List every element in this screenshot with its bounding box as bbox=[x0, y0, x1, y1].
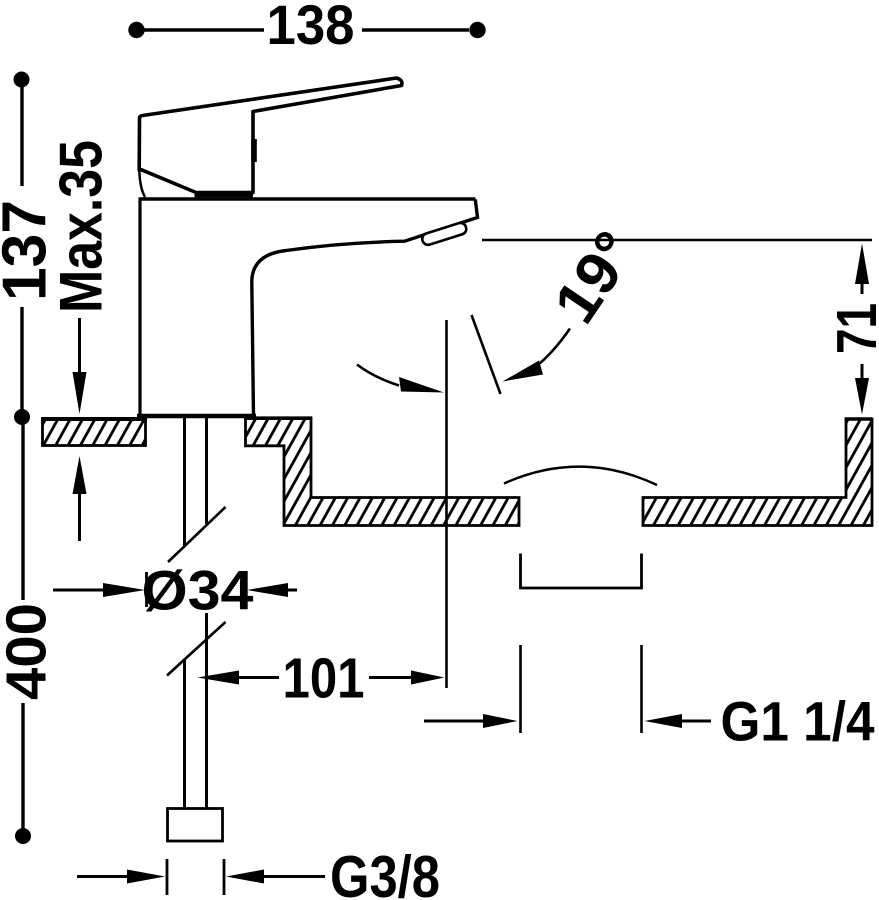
basin break arc bbox=[504, 467, 657, 485]
supply pipe lower left line bbox=[183, 660, 186, 808]
dim G3/8 left extension tick bbox=[166, 859, 169, 895]
dim O34 left arrowhead bbox=[103, 583, 145, 597]
supply pipe lower right line bbox=[205, 613, 208, 808]
svg-text:400: 400 bbox=[0, 603, 58, 700]
dim O34 right arrow tail bbox=[286, 589, 297, 592]
dim O34 left extension tick bbox=[145, 572, 148, 607]
dim G1 1/4 right extension line bbox=[640, 645, 643, 733]
dim 137 top dot bbox=[14, 72, 30, 88]
dim 101 right arrow tail bbox=[369, 676, 413, 679]
svg-text:Max.35: Max.35 bbox=[48, 140, 115, 313]
supply pipe upper left line bbox=[183, 418, 186, 547]
dim 138 dimension line right segment bbox=[362, 28, 469, 31]
angle arc right arrowhead bbox=[503, 361, 544, 382]
dim G3/8 left arrow tail bbox=[77, 875, 131, 878]
faucet body left edge bbox=[138, 199, 141, 415]
dim G1 1/4 left arrowhead bbox=[483, 714, 518, 728]
Max.35 arrow down head bbox=[73, 372, 87, 414]
dim O34 left arrow tail bbox=[53, 589, 106, 592]
shared dot at worktop level bbox=[14, 409, 30, 425]
dim 71 up arrow shaft bbox=[861, 280, 864, 294]
faucet body top surface line bbox=[139, 197, 476, 200]
dim G1 1/4 right arrow tail bbox=[680, 720, 711, 723]
dim 138 right dot bbox=[469, 22, 485, 38]
dim 101 left arrow tail bbox=[237, 676, 279, 679]
handle wedge gap line bbox=[139, 170, 145, 197]
angle arc left arrowhead bbox=[399, 377, 444, 393]
angle arc right bbox=[537, 329, 571, 367]
dim 138 left dot bbox=[128, 22, 144, 38]
dim G3/8 right arrow tail bbox=[262, 875, 325, 878]
faucet body bottom edge bbox=[137, 414, 256, 419]
dim 101 left arrowhead bbox=[198, 671, 240, 685]
Max.35 arrow down shaft bbox=[78, 318, 81, 378]
drain recess U outline bbox=[521, 554, 642, 589]
faucet body right edge and spout underside and end face bbox=[252, 200, 478, 417]
dim 137 dimension line upper segment bbox=[20, 84, 23, 186]
dim 400 dimension line lower segment bbox=[21, 703, 24, 832]
angle arc left bbox=[357, 365, 399, 386]
svg-text:101: 101 bbox=[283, 647, 365, 711]
dim 400 dimension line upper segment bbox=[21, 421, 24, 600]
svg-text:G1 1/4: G1 1/4 bbox=[721, 690, 875, 753]
worktop thickness arrow up head bbox=[73, 456, 87, 494]
spout height reference line bbox=[482, 239, 872, 242]
dim 101 right arrowhead bbox=[411, 671, 445, 685]
worktop right-side section with upstand bbox=[643, 419, 872, 526]
pipe break lower diagonal bbox=[167, 622, 226, 676]
dim 71 down arrowhead bbox=[855, 378, 869, 415]
aerator bbox=[421, 222, 468, 247]
worktop right upstand thick top edge bbox=[845, 417, 872, 421]
worktop right step section bbox=[246, 419, 520, 526]
dim 137 dimension line lower segment bbox=[20, 307, 23, 413]
dim G3/8 right arrowhead bbox=[226, 870, 264, 884]
dim 71 down arrow shaft bbox=[861, 364, 864, 380]
rotated spout face line bbox=[472, 315, 501, 394]
spout axis vertical line bbox=[445, 320, 448, 688]
dim G1 1/4 left arrow tail bbox=[424, 720, 487, 723]
supply pipe upper right line bbox=[205, 418, 208, 524]
dim O34 right arrowhead bbox=[247, 583, 288, 597]
svg-text:G3/8: G3/8 bbox=[330, 844, 440, 900]
worktop thickness arrow up shaft bbox=[78, 490, 81, 541]
handle front edge tick bbox=[251, 139, 257, 162]
svg-text:138: 138 bbox=[267, 0, 355, 56]
dim G3/8 right extension tick bbox=[223, 859, 226, 895]
worktop left hatched band bbox=[43, 419, 146, 446]
svg-text:Ø34: Ø34 bbox=[142, 559, 254, 622]
pipe break upper diagonal bbox=[168, 507, 226, 562]
dim G1 1/4 right arrowhead bbox=[645, 714, 683, 728]
dim G1 1/4 left extension line bbox=[519, 645, 522, 733]
dim 71 up arrowhead bbox=[855, 244, 869, 285]
dim G3/8 left arrowhead bbox=[127, 870, 165, 884]
worktop right step thick top edge bbox=[244, 416, 312, 420]
dim 138 dimension line left segment bbox=[143, 28, 264, 31]
handle shadow band bbox=[195, 191, 254, 197]
hose end connector bbox=[168, 809, 223, 842]
dim 400 bottom dot bbox=[15, 828, 31, 844]
svg-text:71: 71 bbox=[825, 303, 879, 354]
faucet handle lever outline bbox=[139, 78, 402, 193]
dim O34 right extension tick bbox=[244, 572, 247, 607]
worktop left band thick top edge bbox=[41, 417, 147, 421]
